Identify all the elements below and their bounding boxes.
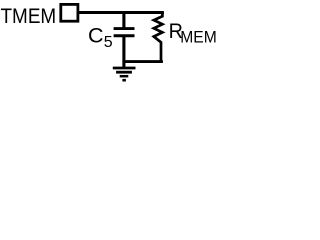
svg-text:MEM: MEM (180, 28, 216, 47)
svg-text:5: 5 (104, 34, 113, 51)
svg-text:C: C (88, 24, 104, 48)
svg-text:TMEM: TMEM (1, 5, 57, 28)
